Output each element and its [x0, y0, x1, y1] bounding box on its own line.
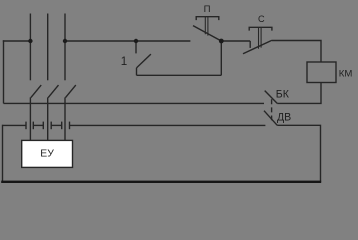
wire: ДВ line long segment to contact — [70, 124, 266, 126]
wire: ДВ line segment between L1 and L2 — [33, 124, 43, 126]
wire: KM coil to БК contact — [277, 83, 321, 104]
wire: phase line L2 upper — [47, 14, 49, 81]
wire: phase line L1 lower — [29, 97, 31, 140]
pushbutton С blade — [243, 40, 272, 53]
connector tick b2 — [50, 122, 52, 130]
svg-text:П: П — [204, 4, 211, 15]
wire: segment П to С — [221, 40, 250, 42]
wire: enclosure bottom edge — [1, 181, 321, 183]
wire: enclosure left edge — [2, 125, 4, 182]
connector tick a1 — [25, 122, 27, 130]
node: self-hold branch junction — [134, 39, 138, 43]
svg-text:КМ: КМ — [339, 68, 353, 79]
connector tick c1 — [61, 122, 63, 130]
contact post tick of С (NC) — [249, 41, 251, 48]
contact ДВ blade — [264, 111, 277, 126]
svg-text:1: 1 — [121, 55, 127, 68]
wire: ДВ line segment between L2 and L3 — [51, 124, 62, 126]
device ЕУ box — [22, 140, 73, 167]
wire: self-hold branch right riser — [220, 41, 222, 75]
wire: self-hold branch down — [136, 68, 138, 75]
connector tick b1 — [42, 122, 44, 130]
svg-text:ДВ: ДВ — [277, 112, 291, 124]
connector tick c2 — [69, 122, 71, 130]
wire: phase line L3 upper — [64, 14, 66, 81]
wire: phase line L1 upper — [29, 14, 31, 81]
contactor KM main contact 3 (blade) — [66, 85, 76, 98]
svg-text:ЕУ: ЕУ — [40, 149, 54, 160]
connector tick a2 — [32, 122, 34, 130]
contact БК blade — [265, 91, 278, 104]
wire: С to KM coil — [272, 41, 321, 63]
contact 1 blade — [137, 54, 151, 68]
wire: phase line L2 lower — [47, 97, 49, 140]
coil KM box — [307, 62, 336, 83]
wire: phase line L3 lower — [64, 97, 66, 140]
svg-text:С: С — [258, 14, 265, 24]
mechanical link БК-ДВ (dashed) — [271, 99, 273, 120]
wire: ДВ line left segment — [3, 124, 27, 126]
node: П pivot junction — [219, 39, 224, 44]
wire: self-hold branch bottom horizontal — [137, 74, 222, 76]
pushbutton П actuator stem (double line) — [205, 17, 208, 36]
contact 1 (KM auxiliary self-hold): upper stub — [135, 41, 137, 53]
pushbutton П blade — [193, 26, 221, 41]
pushbutton П cap bar — [196, 17, 219, 20]
pushbutton С cap bar — [249, 27, 272, 30]
wire: ДВ right segment and right edge down — [277, 125, 320, 182]
svg-text:БК: БК — [276, 89, 290, 101]
contactor KM main contact 2 (blade) — [48, 85, 58, 98]
wire: top control line left segment — [3, 40, 31, 42]
node: tap of phase L3 — [63, 39, 67, 43]
pushbutton С actuator stem (double line) — [259, 28, 262, 49]
wire: top control line from L3 to button П — [65, 40, 190, 42]
wire: БК return line to left rail — [4, 102, 265, 104]
wire: left supply rail (phase A tap) vertical — [3, 40, 5, 103]
node: tap of phase L1 — [28, 39, 32, 43]
contactor KM main contact 1 (blade) — [31, 85, 41, 98]
